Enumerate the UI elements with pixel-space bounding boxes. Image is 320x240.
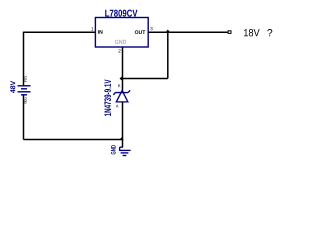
- battery pin name NEG (rotated): [24, 97, 27, 103]
- question mark: [267, 29, 272, 36]
- junction dot at ground node: [120, 136, 123, 139]
- regulator label L7809CV: [105, 10, 137, 17]
- ground symbol: [119, 147, 131, 155]
- wire: left vertical rail down to battery positive: [23, 32, 25, 86]
- junction dot at GND pin node: [120, 76, 123, 81]
- pin number 2: [119, 49, 121, 52]
- battery V1 48V plates: [18, 86, 31, 95]
- pin number 1: [91, 27, 93, 30]
- wire: zener anode down to rail and ground: [122, 102, 124, 147]
- ground label GND (rotated): [111, 145, 116, 154]
- pin name OUT: [135, 30, 146, 34]
- wire: IN pin to left rail (top horizontal): [24, 31, 96, 33]
- zener pin name K: [118, 84, 120, 87]
- net label 18V: [244, 29, 260, 36]
- zener pin name A: [116, 105, 119, 108]
- battery pin name POS (rotated): [24, 76, 27, 82]
- hidden pin name GND (gray): [115, 40, 126, 44]
- wire: battery negative down to bottom rail: [23, 95, 25, 140]
- wire: horizontal branch to GND pin node: [123, 78, 168, 80]
- zener diode D1 cathode bar: [113, 90, 130, 95]
- wire: zener cathode stub: [122, 79, 124, 92]
- wire: GND pin down from box: [122, 47, 124, 79]
- pin name IN: [98, 30, 103, 34]
- zener value label 1N4739-9.1V (rotated): [104, 79, 111, 116]
- junction dot at OUT branch: [166, 30, 170, 33]
- output terminal square: [228, 31, 231, 34]
- pin number 3: [150, 27, 152, 30]
- battery value label 48V (rotated): [10, 81, 15, 93]
- wire: bottom rail to ground node: [24, 139, 124, 141]
- zener diode D1 triangle: [116, 91, 128, 102]
- wire: OUT pin to output terminal: [148, 31, 227, 33]
- wire: vertical branch from OUT wire down: [167, 32, 169, 78]
- regulator U1 L7809CV box: [95, 18, 148, 48]
